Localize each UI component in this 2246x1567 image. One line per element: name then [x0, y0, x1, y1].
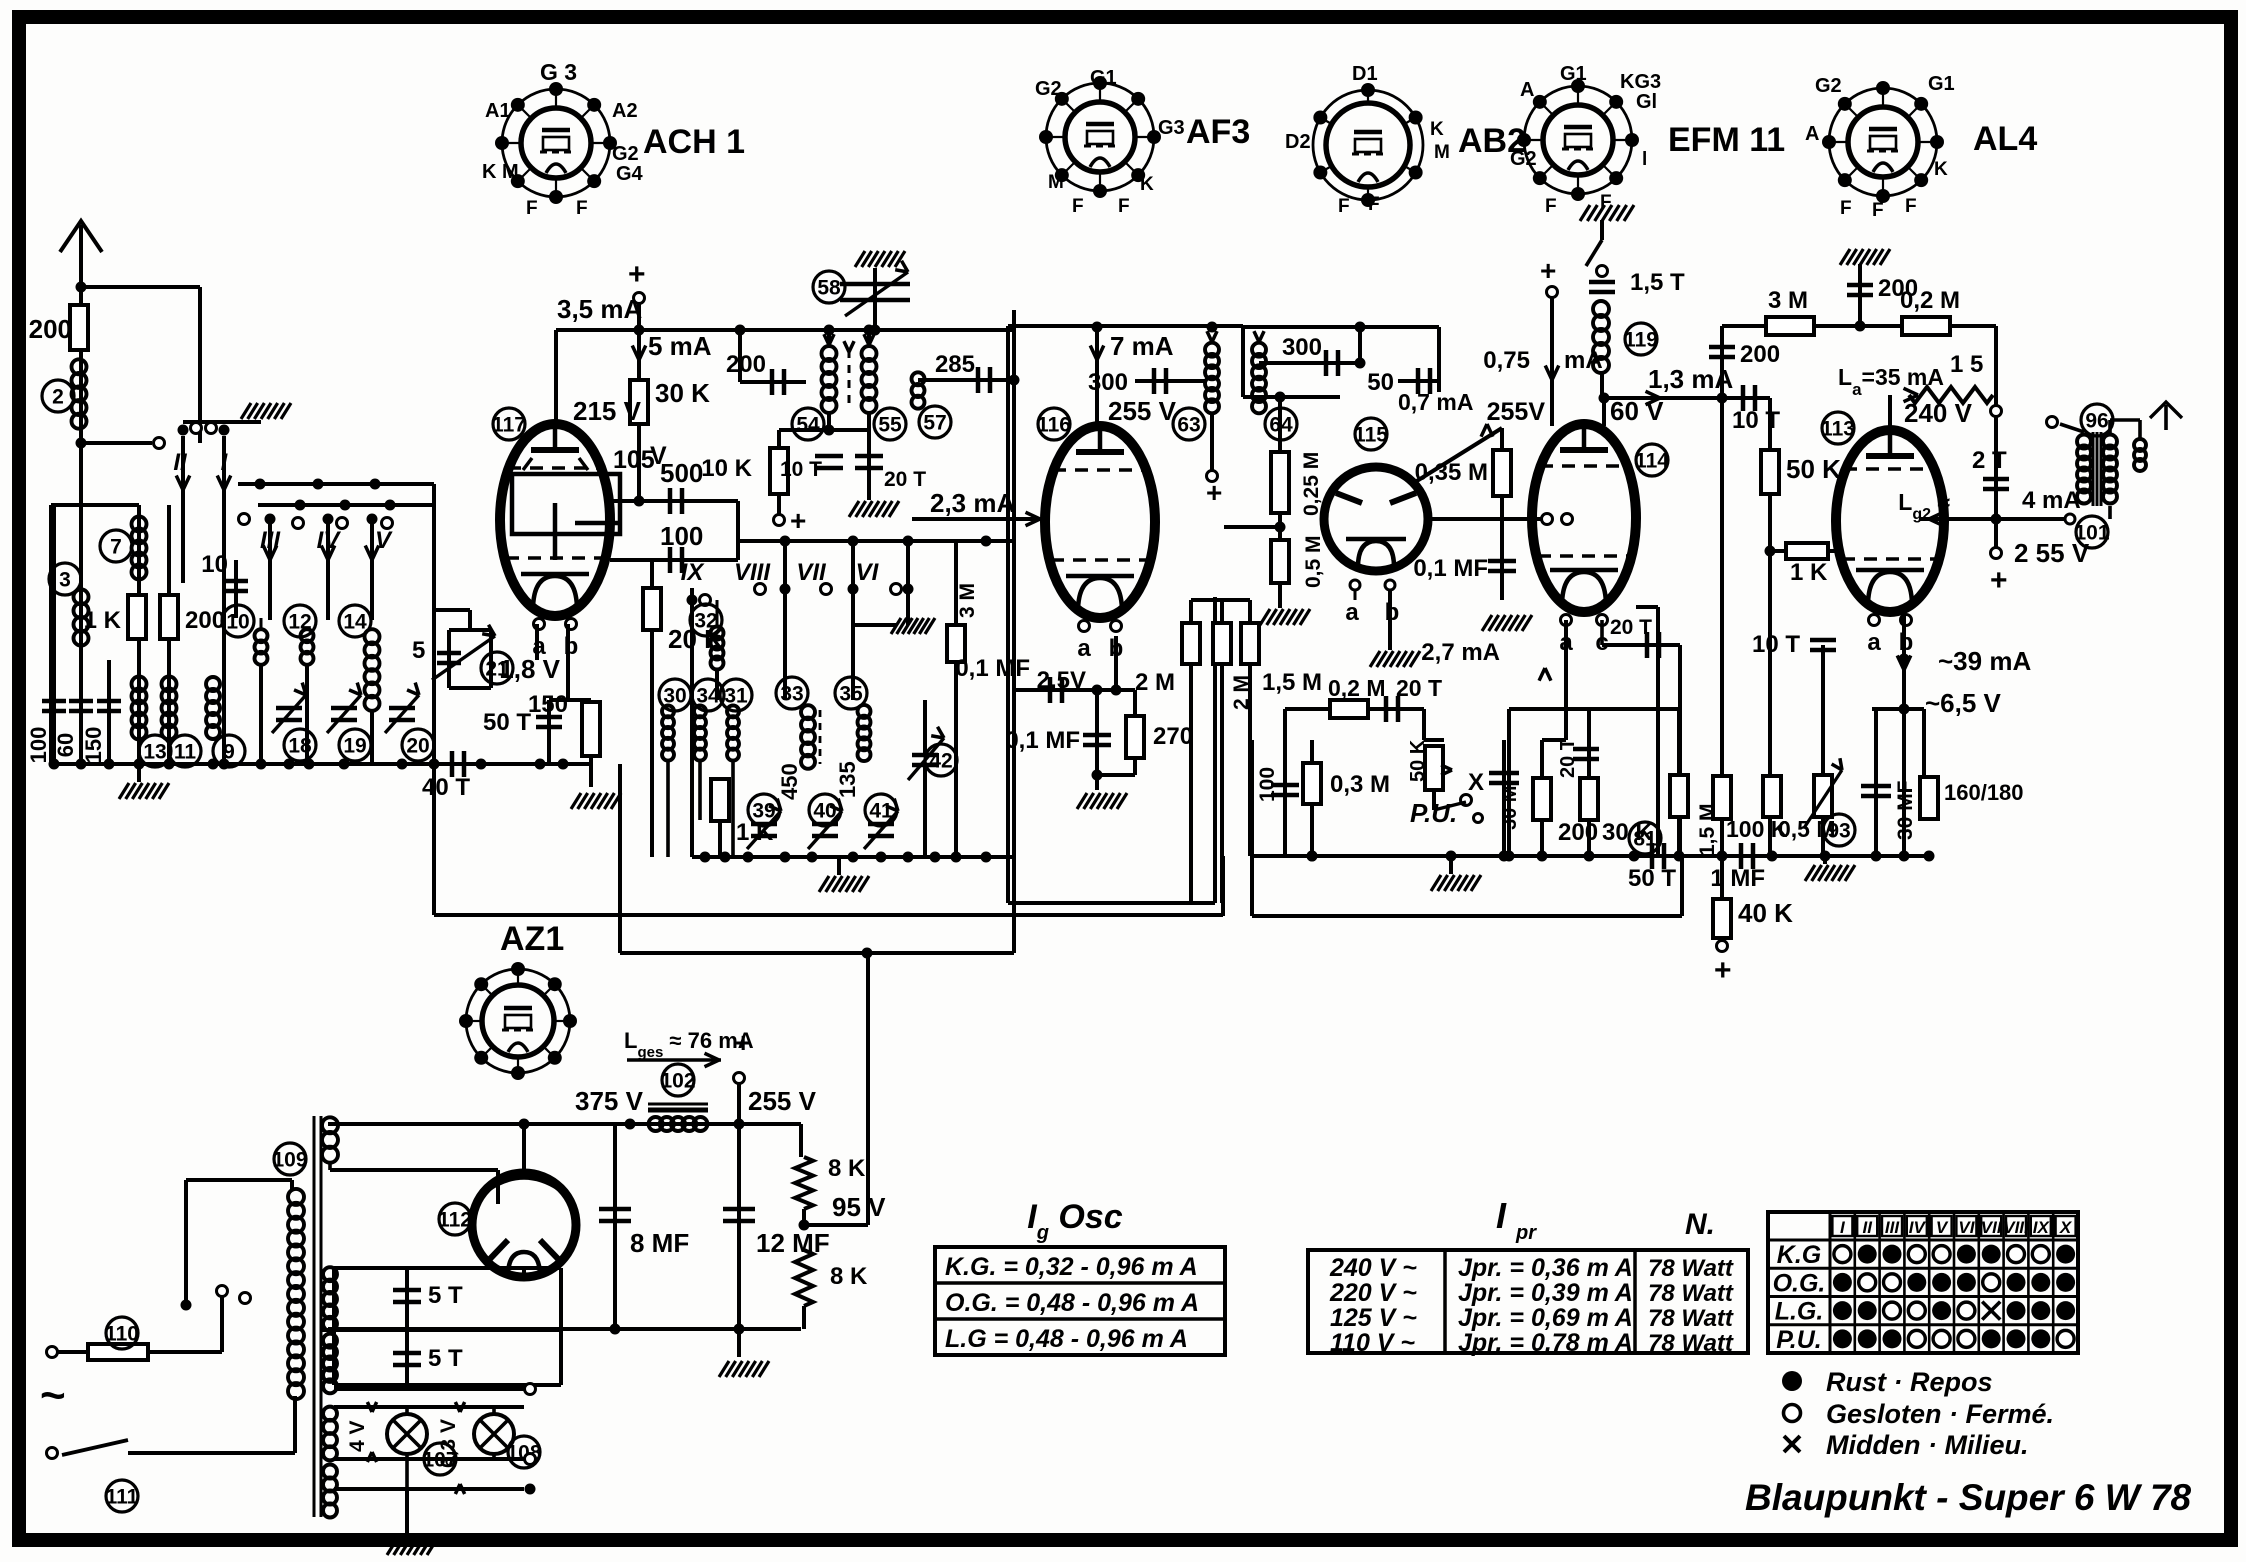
- svg-text:3 M: 3 M: [1768, 287, 1808, 314]
- svg-text:93: 93: [1827, 820, 1850, 843]
- svg-text:0,1 MF: 0,1 MF: [1413, 555, 1488, 582]
- svg-text:G2: G2: [612, 143, 639, 165]
- svg-text:200: 200: [1878, 275, 1918, 302]
- svg-text:F: F: [1072, 196, 1084, 217]
- svg-text:A: A: [1805, 123, 1819, 145]
- svg-text:2,5V: 2,5V: [1037, 667, 1086, 694]
- svg-text:500: 500: [660, 458, 703, 488]
- svg-text:2 M: 2 M: [1230, 675, 1253, 710]
- svg-text:0,1 MF: 0,1 MF: [955, 655, 1030, 682]
- svg-text:200: 200: [1558, 819, 1598, 846]
- svg-text:4 V: 4 V: [346, 1420, 369, 1452]
- svg-text:F: F: [526, 198, 538, 219]
- svg-text:K.G. = 0,32 - 0,96 m A: K.G. = 0,32 - 0,96 m A: [945, 1253, 1198, 1281]
- svg-text:1 K: 1 K: [1790, 559, 1828, 586]
- svg-text:111: 111: [106, 1486, 139, 1509]
- svg-text:+: +: [1990, 564, 2008, 597]
- svg-text:57: 57: [923, 412, 946, 435]
- svg-text:AL4: AL4: [1973, 120, 2037, 158]
- svg-text:G1: G1: [1090, 67, 1117, 89]
- svg-text:+: +: [628, 258, 646, 291]
- svg-text:102: 102: [660, 1070, 695, 1093]
- svg-text:0,75: 0,75: [1483, 347, 1530, 374]
- svg-text:10 T: 10 T: [1732, 407, 1780, 434]
- svg-text:a: a: [532, 633, 546, 660]
- svg-text:+: +: [790, 505, 806, 536]
- svg-text:II: II: [1862, 1218, 1873, 1237]
- svg-text:8 MF: 8 MF: [630, 1228, 689, 1258]
- svg-text:240 V ~: 240 V ~: [1329, 1254, 1417, 1282]
- svg-text:F: F: [1545, 196, 1557, 217]
- svg-text:50 T: 50 T: [483, 709, 531, 736]
- svg-text:7 mA: 7 mA: [1110, 331, 1174, 361]
- svg-text:50 K: 50 K: [1407, 739, 1429, 782]
- svg-text:4 mA: 4 mA: [2022, 487, 2081, 514]
- svg-text:39: 39: [752, 800, 775, 823]
- svg-text:K: K: [1934, 159, 1948, 180]
- svg-text:100: 100: [660, 521, 703, 551]
- svg-text:119: 119: [1624, 329, 1658, 352]
- svg-text:N.: N.: [1685, 1208, 1715, 1241]
- svg-text:L.G = 0,48 - 0,96 m A: L.G = 0,48 - 0,96 m A: [945, 1325, 1188, 1353]
- svg-text:8 K: 8 K: [830, 1263, 868, 1290]
- svg-text:100: 100: [1256, 767, 1279, 802]
- svg-text:110: 110: [105, 1323, 139, 1346]
- svg-text:42: 42: [929, 750, 952, 773]
- svg-text:2: 2: [52, 386, 64, 409]
- svg-text:a: a: [1077, 635, 1091, 662]
- svg-text:X: X: [1468, 769, 1484, 796]
- svg-text:20 T: 20 T: [1557, 738, 1579, 778]
- svg-text:3,5 mA: 3,5 mA: [557, 294, 642, 324]
- svg-text:ACH 1: ACH 1: [643, 123, 745, 161]
- svg-text:O.G. = 0,48 - 0,96 m A: O.G. = 0,48 - 0,96 m A: [945, 1289, 1199, 1317]
- svg-text:2,7 mA: 2,7 mA: [1421, 639, 1500, 666]
- svg-text:1 5: 1 5: [1950, 351, 1983, 378]
- svg-text:L.G.: L.G.: [1775, 1298, 1824, 1326]
- svg-text:10 T: 10 T: [1752, 631, 1800, 658]
- svg-text:125 V ~: 125 V ~: [1330, 1304, 1417, 1332]
- svg-text:3: 3: [59, 569, 71, 592]
- svg-text:A: A: [1520, 79, 1534, 101]
- svg-text:18: 18: [288, 735, 312, 758]
- svg-text:5 T: 5 T: [428, 1345, 463, 1372]
- svg-text:160/180: 160/180: [1944, 780, 2024, 805]
- svg-text:F: F: [1368, 194, 1380, 215]
- svg-text:40 K: 40 K: [1738, 898, 1793, 928]
- svg-text:135: 135: [835, 761, 860, 798]
- svg-text:b: b: [564, 633, 579, 660]
- svg-text:20: 20: [406, 735, 429, 758]
- svg-text:Gl: Gl: [1636, 91, 1657, 113]
- svg-text:Midden · Milieu.: Midden · Milieu.: [1826, 1430, 2029, 1460]
- svg-text:a: a: [1867, 629, 1881, 656]
- svg-text:63: 63: [1177, 414, 1200, 437]
- svg-text:50: 50: [1367, 369, 1394, 396]
- svg-text:0,1 MF: 0,1 MF: [1005, 727, 1080, 754]
- svg-text:95 V: 95 V: [832, 1192, 886, 1222]
- svg-text:K M: K M: [482, 161, 519, 183]
- svg-text:F: F: [1338, 196, 1350, 217]
- svg-text:60: 60: [53, 733, 78, 757]
- svg-text:G2: G2: [1815, 75, 1842, 97]
- svg-text:0,2 M: 0,2 M: [1328, 675, 1386, 701]
- svg-text:VII: VII: [796, 559, 827, 586]
- svg-text:l: l: [1642, 149, 1647, 170]
- svg-text:III: III: [1885, 1218, 1900, 1237]
- svg-text:G1: G1: [1560, 63, 1587, 85]
- svg-text:78 Watt: 78 Watt: [1648, 1330, 1734, 1357]
- svg-text:M: M: [1434, 142, 1450, 163]
- svg-text:40: 40: [813, 800, 836, 823]
- svg-text:+: +: [1206, 477, 1222, 508]
- svg-text:112: 112: [438, 1209, 472, 1232]
- svg-text:Jpr. = 0,78 m A: Jpr. = 0,78 m A: [1458, 1329, 1633, 1357]
- svg-text:Blaupunkt - Super 6 W 78: Blaupunkt - Super 6 W 78: [1745, 1477, 2192, 1518]
- svg-text:100: 100: [26, 727, 51, 764]
- svg-text:54: 54: [796, 414, 820, 437]
- svg-text:Jpr. = 0,69 m A: Jpr. = 0,69 m A: [1458, 1304, 1633, 1332]
- svg-text:60 V: 60 V: [1610, 396, 1664, 426]
- svg-text:5: 5: [412, 637, 425, 664]
- svg-text:215 V: 215 V: [573, 396, 642, 426]
- svg-text:1,8 V: 1,8 V: [499, 654, 560, 684]
- svg-text:A1: A1: [485, 100, 511, 122]
- svg-text:96: 96: [2085, 410, 2108, 433]
- svg-text:G 3: G 3: [540, 59, 577, 85]
- svg-text:D2: D2: [1285, 131, 1311, 153]
- svg-text:150: 150: [81, 727, 106, 764]
- svg-text:~: ~: [40, 1371, 66, 1420]
- svg-text:300: 300: [1088, 369, 1128, 396]
- svg-text:78 Watt: 78 Watt: [1648, 1305, 1734, 1332]
- svg-text:G1: G1: [1928, 73, 1955, 95]
- svg-text:33: 33: [780, 683, 803, 706]
- svg-text:5 mA: 5 mA: [648, 331, 712, 361]
- svg-text:+: +: [1540, 255, 1556, 286]
- svg-text:IV: IV: [1909, 1218, 1927, 1237]
- svg-text:30 K: 30 K: [655, 378, 710, 408]
- svg-text:220 V ~: 220 V ~: [1329, 1279, 1417, 1307]
- svg-text:200: 200: [185, 607, 225, 634]
- svg-text:A2: A2: [612, 100, 638, 122]
- svg-text:P.U.: P.U.: [1410, 798, 1457, 828]
- svg-text:O.G.: O.G.: [1773, 1269, 1826, 1297]
- svg-text:a: a: [1345, 599, 1359, 626]
- svg-text:Jpr. = 0,36 m A: Jpr. = 0,36 m A: [1458, 1254, 1633, 1282]
- svg-text:150: 150: [528, 691, 568, 718]
- svg-text:F: F: [1872, 200, 1884, 221]
- svg-text:VI: VI: [1958, 1218, 1975, 1237]
- svg-text:19: 19: [343, 735, 366, 758]
- svg-text:270: 270: [1153, 723, 1193, 750]
- svg-text:30 MF: 30 MF: [1894, 780, 1917, 840]
- svg-text:13: 13: [143, 741, 166, 764]
- svg-text:G2: G2: [1510, 148, 1537, 170]
- svg-text:5 T: 5 T: [428, 1282, 463, 1309]
- svg-text:114: 114: [1635, 450, 1669, 473]
- svg-text:P.U.: P.U.: [1776, 1326, 1821, 1354]
- svg-text:EFM 11: EFM 11: [1668, 121, 1785, 159]
- svg-text:285: 285: [935, 351, 975, 378]
- svg-text:0,3 M: 0,3 M: [1330, 771, 1390, 798]
- svg-text:KG3: KG3: [1620, 71, 1661, 93]
- svg-text:2,3 mA: 2,3 mA: [930, 488, 1015, 518]
- svg-text:20 T: 20 T: [1396, 675, 1442, 701]
- svg-text:35: 35: [839, 683, 863, 706]
- svg-text:AF3: AF3: [1186, 113, 1250, 151]
- svg-text:55: 55: [878, 414, 902, 437]
- svg-text:6,3 V: 6,3 V: [437, 1419, 460, 1468]
- svg-text:20 T: 20 T: [1610, 616, 1652, 639]
- svg-text:0,35 M: 0,35 M: [1415, 459, 1488, 486]
- svg-text:200: 200: [1740, 341, 1780, 368]
- svg-text:20 T: 20 T: [884, 468, 926, 491]
- svg-text:2 M: 2 M: [1135, 669, 1175, 696]
- svg-text:117: 117: [492, 414, 526, 437]
- svg-text:300: 300: [1282, 334, 1322, 361]
- svg-text:101: 101: [2074, 522, 2109, 545]
- svg-text:II: II: [173, 449, 188, 476]
- svg-text:0,5 M: 0,5 M: [1302, 535, 1325, 588]
- svg-text:V: V: [1936, 1218, 1949, 1237]
- svg-text:VII: VII: [1981, 1218, 2003, 1237]
- svg-text:F: F: [1840, 198, 1852, 219]
- svg-text:G2: G2: [1035, 78, 1062, 100]
- svg-text:Rust · Repos: Rust · Repos: [1826, 1367, 1993, 1397]
- svg-text:G4: G4: [616, 163, 644, 185]
- svg-text:K: K: [1430, 119, 1444, 140]
- svg-text:41: 41: [869, 800, 893, 823]
- svg-text:0,7 mA: 0,7 mA: [1398, 389, 1473, 415]
- svg-text:X: X: [2059, 1218, 2073, 1237]
- svg-text:7: 7: [110, 536, 122, 559]
- svg-text:1 MF: 1 MF: [1710, 865, 1765, 892]
- svg-text:K.G: K.G: [1777, 1241, 1821, 1269]
- svg-text:mA: mA: [1564, 347, 1603, 374]
- svg-text:1,5 M: 1,5 M: [1262, 669, 1322, 696]
- svg-text:AZ1: AZ1: [500, 920, 564, 958]
- svg-text:110 V ~: 110 V ~: [1330, 1329, 1415, 1357]
- svg-text:255 V: 255 V: [1108, 396, 1177, 426]
- svg-text:255 V: 255 V: [748, 1086, 817, 1116]
- svg-text:D1: D1: [1352, 63, 1378, 85]
- svg-text:Jpr. = 0,39 m A: Jpr. = 0,39 m A: [1458, 1279, 1633, 1307]
- svg-text:8 K: 8 K: [828, 1155, 866, 1182]
- svg-text:10: 10: [226, 611, 249, 634]
- svg-text:+: +: [735, 1027, 751, 1058]
- svg-text:+: +: [1714, 954, 1732, 987]
- svg-text:VI: VI: [856, 559, 880, 586]
- svg-text:115: 115: [1354, 424, 1388, 447]
- svg-text:F: F: [1905, 196, 1917, 217]
- svg-text:450: 450: [777, 763, 802, 800]
- svg-text:F: F: [1118, 196, 1130, 217]
- svg-text:78 Watt: 78 Watt: [1648, 1280, 1734, 1307]
- svg-text:VIII: VIII: [734, 559, 771, 586]
- svg-text:40 T: 40 T: [422, 774, 470, 801]
- svg-text:375 V: 375 V: [575, 1086, 644, 1116]
- svg-text:10 K: 10 K: [701, 455, 752, 482]
- svg-text:116: 116: [1037, 414, 1071, 437]
- svg-text:M: M: [1048, 172, 1064, 193]
- svg-text:109: 109: [272, 1149, 307, 1172]
- svg-text:50 K: 50 K: [1786, 454, 1841, 484]
- svg-text:0,25 M: 0,25 M: [1300, 452, 1323, 516]
- svg-text:F: F: [576, 198, 588, 219]
- svg-text:78 Watt: 78 Watt: [1648, 1255, 1734, 1282]
- svg-text:3 M: 3 M: [956, 583, 979, 618]
- svg-text:12 MF: 12 MF: [756, 1228, 830, 1258]
- svg-text:105: 105: [613, 446, 655, 474]
- svg-text:50 T: 50 T: [1628, 865, 1676, 892]
- svg-text:200: 200: [726, 351, 766, 378]
- svg-text:G3: G3: [1158, 117, 1185, 139]
- svg-text:Gesloten · Fermé.: Gesloten · Fermé.: [1826, 1399, 2054, 1429]
- svg-text:1,5 T: 1,5 T: [1630, 269, 1685, 296]
- svg-text:10: 10: [201, 551, 228, 578]
- svg-text:14: 14: [343, 611, 367, 634]
- svg-text:IX: IX: [681, 559, 706, 586]
- svg-text:2 T: 2 T: [1972, 447, 2007, 474]
- svg-text:58: 58: [817, 277, 841, 300]
- svg-text:11: 11: [174, 741, 197, 764]
- svg-text:VIII: VIII: [2003, 1218, 2030, 1237]
- svg-text:K: K: [1140, 174, 1154, 195]
- svg-text:255V: 255V: [1487, 398, 1546, 426]
- svg-text:~6,5 V: ~6,5 V: [1925, 688, 2002, 718]
- svg-text:113: 113: [1821, 418, 1855, 441]
- svg-text:IX: IX: [2033, 1218, 2051, 1237]
- svg-text:200: 200: [29, 314, 72, 344]
- svg-text:~39 mA: ~39 mA: [1938, 646, 2031, 676]
- svg-text:10 T: 10 T: [780, 458, 822, 481]
